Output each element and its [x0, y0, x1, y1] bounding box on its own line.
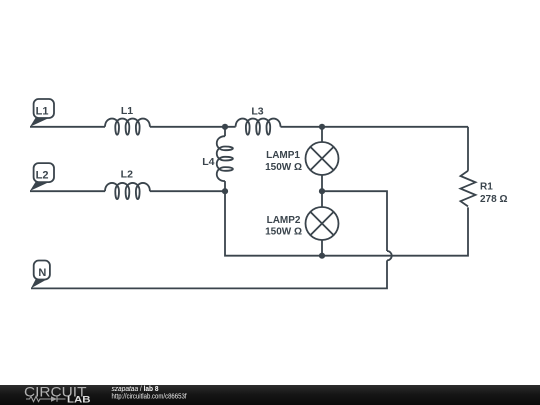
wire: [321, 175, 323, 207]
wire: [150, 126, 236, 128]
terminal flag N: [31, 261, 50, 289]
svg-text:L3: L3: [251, 105, 263, 117]
svg-text:szapataa / lab 8: szapataa / lab 8: [112, 386, 159, 393]
wire: [224, 181, 226, 191]
svg-text:LAMP1: LAMP1: [266, 150, 300, 161]
svg-text:L1: L1: [36, 105, 49, 117]
svg-text:LAMP2: LAMP2: [267, 215, 301, 226]
svg-text:L4: L4: [202, 156, 214, 168]
footer bar: [0, 385, 540, 405]
svg-text:N: N: [38, 267, 46, 279]
wire: [150, 190, 225, 192]
terminal flag L1: [30, 99, 54, 127]
wire: [30, 126, 105, 128]
wire: [224, 127, 226, 136]
wire: [281, 126, 469, 128]
node at 322,256: [319, 253, 325, 259]
terminal flag L2: [30, 163, 54, 191]
wire: [225, 191, 468, 256]
inductor L3: [236, 105, 281, 134]
inductor L2: [105, 169, 150, 200]
node at 322,191: [319, 188, 325, 194]
inductor L1: [105, 105, 150, 135]
wire hop: [387, 251, 392, 260]
wire: [321, 240, 323, 256]
svg-text:150W Ω: 150W Ω: [265, 162, 302, 173]
resistor R1: [461, 171, 508, 207]
lamp LAMP1: [265, 142, 338, 175]
wire: [467, 127, 469, 171]
svg-text:278 Ω: 278 Ω: [480, 194, 507, 205]
svg-text:LAB: LAB: [67, 395, 91, 405]
svg-text:R1: R1: [480, 182, 493, 193]
lamp LAMP2: [265, 207, 338, 240]
wire: [31, 260, 387, 288]
node at 225,127: [222, 124, 228, 130]
svg-text:http://circuitlab.com/c86653f: http://circuitlab.com/c86653f: [112, 394, 187, 401]
svg-text:L2: L2: [121, 169, 133, 181]
inductor L4: [202, 136, 233, 181]
svg-text:L2: L2: [36, 169, 49, 181]
footer logo resistor-diode glyph: [26, 396, 66, 401]
svg-text:L1: L1: [121, 105, 133, 117]
svg-text:150W Ω: 150W Ω: [265, 227, 302, 238]
wire: [322, 191, 387, 251]
wire: [30, 190, 105, 192]
node at 322,127: [319, 124, 325, 130]
wire: [321, 127, 323, 142]
node at 225,191: [222, 188, 228, 194]
